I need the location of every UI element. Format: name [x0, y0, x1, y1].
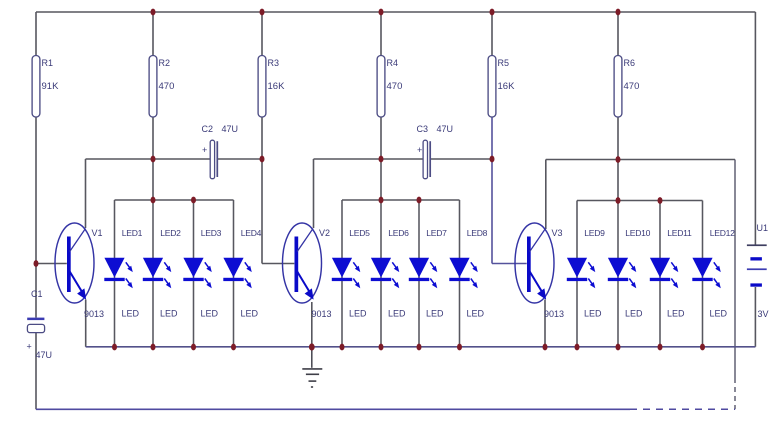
LED LED6: [371, 228, 409, 319]
svg-text:LED7: LED7: [426, 228, 447, 238]
wire R3 bottom lead: [261, 117, 263, 264]
svg-text:470: 470: [159, 81, 175, 92]
capacitor C3: [417, 124, 454, 179]
LED LED1: [104, 228, 142, 319]
wire V1 emitter drop: [85, 300, 87, 347]
svg-text:LED3: LED3: [201, 228, 222, 238]
svg-text:47U: 47U: [437, 124, 454, 134]
wire LED5 branch: [341, 200, 343, 347]
ground: [302, 369, 322, 387]
svg-text:V2: V2: [319, 228, 330, 238]
wire R4 bottom lead: [380, 117, 382, 200]
wire LED10 branch: [617, 201, 619, 347]
junction top rail R2: [151, 9, 156, 16]
svg-text:V1: V1: [92, 228, 103, 238]
svg-text:LED11: LED11: [667, 228, 692, 238]
junction bottom rail LED8: [457, 344, 462, 351]
LED LED11: [650, 228, 692, 319]
svg-text:C3: C3: [417, 124, 429, 134]
junction rail3 LED10: [616, 197, 621, 204]
svg-text:LED: LED: [710, 309, 728, 319]
junction rail2 LED6: [379, 197, 384, 204]
wire V1 collector riser: [85, 159, 87, 228]
wire top supply rail: [36, 11, 755, 13]
svg-text:LED12: LED12: [710, 228, 735, 238]
transistor V1: [55, 223, 104, 319]
junction bottom rail V3 emitter: [543, 344, 548, 351]
wire LED6 branch: [380, 200, 382, 347]
wire C1 bottom lead: [35, 333, 37, 410]
wire R2 bottom lead: [152, 117, 154, 200]
junction rail1 LED3: [191, 197, 196, 204]
svg-text:R3: R3: [268, 58, 280, 68]
wire ground stem: [311, 347, 313, 368]
wire LED8 branch: [459, 200, 461, 347]
svg-text:C1: C1: [31, 289, 43, 299]
svg-text:R5: R5: [498, 58, 510, 68]
wire V3 collector riser: [545, 160, 547, 230]
wire feedback drop dashed: [734, 378, 736, 409]
resistor R4: [377, 56, 402, 118]
svg-text:LED6: LED6: [388, 228, 409, 238]
svg-text:LED: LED: [122, 309, 140, 319]
svg-text:LED1: LED1: [122, 228, 143, 238]
wire R5 top lead: [491, 12, 493, 56]
svg-text:LED9: LED9: [584, 228, 605, 238]
junction bottom rail LED10: [616, 344, 621, 351]
junction top rail R3: [260, 9, 265, 16]
svg-text:LED: LED: [426, 309, 444, 319]
svg-text:470: 470: [387, 81, 403, 92]
wire LED12 branch: [702, 201, 704, 347]
wire stage2 coupling right: [431, 158, 492, 160]
wire R1 top lead: [35, 12, 37, 56]
junction bottom rail LED4: [231, 344, 236, 351]
svg-text:16K: 16K: [268, 81, 286, 92]
wire R6 bottom lead: [617, 117, 619, 201]
svg-text:LED4: LED4: [241, 228, 262, 238]
svg-text:9013: 9013: [312, 309, 332, 319]
wire LED group3 anode rail: [577, 200, 703, 202]
svg-text:LED8: LED8: [467, 228, 488, 238]
svg-text:LED2: LED2: [160, 228, 181, 238]
junction rail1 LED2: [151, 197, 156, 204]
svg-text:LED: LED: [584, 309, 602, 319]
svg-text:+: +: [417, 145, 422, 155]
capacitor C1: [27, 289, 53, 360]
wire V2 emitter drop: [311, 302, 313, 347]
wire LED group1 anode rail: [115, 199, 234, 201]
wire bottom common rail: [86, 346, 756, 348]
junction stage2 R4: [379, 156, 384, 163]
junction stage1 R2: [151, 156, 156, 163]
junction top rail R6: [616, 9, 621, 16]
wire R6 top lead: [617, 12, 619, 56]
junction bottom rail LED1: [112, 344, 117, 351]
wire V1 base: [36, 263, 67, 265]
LED LED10: [608, 228, 651, 319]
svg-text:+: +: [202, 145, 207, 155]
LED LED5: [332, 228, 370, 319]
wire LED4 branch: [233, 200, 235, 347]
wire LED1 branch: [114, 200, 116, 347]
wire stage1 coupling right: [217, 158, 262, 160]
resistor R6: [614, 56, 639, 118]
svg-text:LED: LED: [625, 309, 643, 319]
LED LED8: [449, 228, 487, 319]
wire feedback drop solid: [734, 160, 736, 379]
svg-text:16K: 16K: [498, 81, 516, 92]
battery U1: [747, 223, 769, 319]
svg-text:470: 470: [624, 81, 640, 92]
wire LED group2 anode rail: [342, 199, 460, 201]
svg-text:LED: LED: [201, 309, 219, 319]
wire bottom return solid: [36, 408, 630, 410]
wire V3 emitter drop: [544, 300, 546, 347]
wire stage2 coupling left: [314, 158, 424, 160]
svg-text:LED5: LED5: [349, 228, 370, 238]
junction bottom rail LED9: [575, 344, 580, 351]
svg-text:91K: 91K: [42, 81, 60, 92]
resistor R2: [149, 56, 174, 118]
LED LED12: [692, 228, 735, 319]
junction top rail R5: [490, 9, 495, 16]
svg-text:U1: U1: [757, 223, 769, 233]
svg-text:LED10: LED10: [625, 228, 650, 238]
wire LED7 branch: [418, 200, 420, 347]
wire LED2 branch: [152, 200, 154, 347]
LED LED7: [409, 228, 447, 319]
transistor V2: [283, 223, 332, 319]
junction bottom rail LED11: [658, 344, 663, 351]
svg-text:LED: LED: [667, 309, 685, 319]
wire LED11 branch: [659, 201, 661, 347]
junction top rail R4: [379, 9, 384, 16]
svg-text:47U: 47U: [222, 124, 239, 134]
resistor R5: [488, 56, 515, 118]
LED LED2: [143, 228, 181, 319]
LED LED3: [183, 228, 221, 319]
transistor V3: [515, 223, 564, 319]
svg-text:9013: 9013: [84, 309, 104, 319]
junction bottom rail LED5: [340, 344, 345, 351]
wire V2 base: [262, 263, 294, 265]
capacitor C2: [202, 124, 239, 179]
wire battery positive lead: [754, 12, 756, 245]
svg-text:R6: R6: [624, 58, 636, 68]
svg-text:LED: LED: [160, 309, 178, 319]
wire R1 bottom lead to base node: [35, 117, 37, 264]
wire stage1 coupling left: [86, 158, 211, 160]
resistor R1: [32, 56, 59, 118]
svg-text:LED: LED: [349, 309, 367, 319]
svg-text:47U: 47U: [36, 350, 53, 360]
wire battery negative lead: [754, 287, 756, 347]
wire stage3 coupling: [546, 159, 735, 161]
svg-text:+: +: [27, 342, 32, 352]
wire R4 top lead: [380, 12, 382, 56]
junction bottom rail LED12: [700, 344, 705, 351]
svg-text:LED: LED: [388, 309, 406, 319]
junction bottom rail LED2: [151, 344, 156, 351]
svg-text:R1: R1: [42, 58, 54, 68]
svg-text:LED: LED: [241, 309, 259, 319]
junction stage2 R5: [490, 156, 495, 163]
junction bottom rail LED3: [191, 344, 196, 351]
LED LED9: [567, 228, 605, 319]
svg-text:C2: C2: [202, 124, 214, 134]
svg-text:R2: R2: [159, 58, 171, 68]
junction stage3 R6: [616, 156, 621, 163]
wire V2 collector riser: [313, 159, 315, 228]
junction rail2 LED7: [417, 197, 422, 204]
junction bottom rail LED6: [379, 344, 384, 351]
wire R5 bottom lead: [491, 117, 493, 264]
wire LED3 branch: [193, 200, 195, 347]
wire bottom return dashed: [630, 408, 735, 410]
junction rail3 LED11: [658, 197, 663, 204]
svg-text:LED: LED: [467, 309, 485, 319]
resistor R3: [258, 56, 285, 118]
wire V3 base: [492, 263, 527, 265]
wire R3 top lead: [261, 12, 263, 56]
svg-text:3V: 3V: [758, 309, 769, 319]
junction bottom rail V2 emitter: [309, 343, 315, 350]
junction stage1 R3: [260, 156, 265, 163]
LED LED4: [223, 228, 261, 319]
wire R2 top lead: [152, 12, 154, 56]
junction bottom rail LED7: [417, 344, 422, 351]
svg-text:V3: V3: [552, 228, 563, 238]
svg-text:R4: R4: [387, 58, 399, 68]
junction V1 base node: [34, 260, 39, 267]
wire LED9 branch: [576, 201, 578, 347]
svg-text:9013: 9013: [544, 309, 564, 319]
wire C1 top lead: [35, 264, 37, 318]
